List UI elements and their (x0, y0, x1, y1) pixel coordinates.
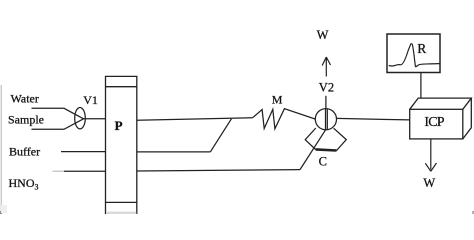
wire HNO3 faint tail (53, 170, 65, 172)
wire stem above valve (325, 96, 327, 109)
recorder peak trace (389, 44, 440, 67)
wire buffer line right (137, 151, 211, 153)
mixing coil M (253, 109, 316, 129)
pump P box (106, 76, 137, 214)
svg-text:M: M (272, 93, 283, 107)
ICP box top face (410, 98, 472, 109)
arrow ICP to waste (425, 139, 436, 171)
coil C bottom thick edge (316, 149, 337, 150)
wire HNO3 line right (137, 170, 300, 171)
svg-text:R: R (417, 41, 426, 56)
recorder R box (387, 34, 440, 73)
svg-text:W: W (423, 176, 435, 190)
scan artifact bottom-right corner (472, 211, 474, 214)
arrow to waste above valve (322, 57, 330, 77)
svg-text:Buffer: Buffer (9, 145, 40, 159)
svg-text:ICP: ICP (424, 115, 444, 130)
valve V2 circle (315, 109, 336, 130)
svg-text:P: P (115, 118, 123, 133)
svg-text:V1: V1 (83, 93, 98, 107)
wire buffer line left (61, 151, 106, 153)
ICP box right face (463, 98, 472, 139)
wire buffer merge diagonal (210, 119, 231, 152)
wire ICP to recorder (420, 73, 422, 99)
svg-text:V2: V2 (319, 80, 334, 94)
pump bottom band line (106, 201, 137, 203)
coil C loop (305, 128, 316, 150)
wire HNO3 line left (64, 170, 106, 172)
svg-text:HNO3: HNO3 (9, 176, 39, 192)
ICP torch box front face (410, 109, 463, 139)
coil C right side (334, 128, 347, 150)
valve V2 inner double line (326, 109, 328, 130)
wire pump to mixing coil (137, 118, 253, 121)
wire HNO3 diagonal to valve (300, 130, 326, 170)
scan artifact bottom-left corner (0, 211, 2, 214)
svg-text:Sample: Sample (8, 113, 44, 127)
wire sample line (32, 119, 84, 130)
wire water line (32, 108, 84, 119)
scan artifact left edge line (0, 85, 2, 214)
pump faint bottom edge (106, 212, 136, 214)
svg-text:W: W (317, 28, 329, 42)
pump top band line (106, 86, 137, 88)
wire V1 to pump (84, 118, 106, 120)
svg-text:Water: Water (11, 92, 39, 106)
svg-text:C: C (319, 155, 327, 169)
valve V1 (75, 108, 86, 129)
wire valve to ICP (336, 118, 409, 120)
